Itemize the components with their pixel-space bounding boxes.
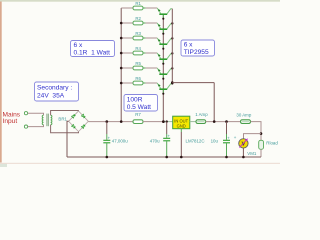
svg-text:470u: 470u (150, 139, 160, 144)
wire: row 4 horizontal from left bus to resistor R4 (121, 52, 133, 54)
annotation box: 6 x TIP2955 (181, 40, 215, 56)
transistor Q3: base stub to bus (162, 45, 164, 49)
transistor Q4: base bar (159, 58, 167, 60)
annotation box: Secondary 24V 35A (35, 82, 79, 101)
bridge BR1 diode D1 (top-left edge) (72, 115, 75, 118)
junction: 470u capacitor tap (166, 120, 168, 122)
junction on left bus, row 5 (120, 67, 123, 70)
transistor Q4: base stub to bus (162, 60, 164, 64)
junction: Q5 base joins base bus (162, 78, 164, 80)
wire: secondary top to bridge AC1 (51, 111, 79, 116)
junction: Q5 collector joins collector bus (171, 67, 173, 69)
wire: regulator OUT to fuse F1 (190, 121, 196, 123)
wire: output line from F1 to F2 (206, 121, 241, 123)
wire: row 2 from resistor R2 to transistor Q2 emitter (143, 22, 146, 24)
junction: 47,000u capacitor tap (106, 120, 109, 123)
transistor Q2: base bar (159, 28, 167, 30)
resistor R6 (0.1R) body (133, 81, 143, 85)
wire: Rload to ground rail (260, 149, 262, 157)
junction on left bus, row 3 (120, 37, 123, 40)
junction: Q6 collector joins collector bus (171, 82, 173, 84)
left border of page frame (0, 2, 2, 163)
transistor Q1 TIP2955 (PNP): emitter lead with arrow (157, 8, 161, 13)
capacitor C3 10u (223, 122, 230, 157)
wire: row 5 from resistor R5 to transistor Q5 emitter (143, 67, 146, 69)
junction: C1 on ground rail (106, 156, 109, 159)
transformer T1 core (46, 114, 48, 127)
wire: row 6 horizontal from left bus to resistor R6 (121, 82, 133, 84)
wire: neutral terminal to transformer primary (28, 125, 44, 127)
svg-text:VM1: VM1 (247, 151, 257, 156)
wire: common base bus vertical down to regulator IN node (162, 15, 164, 122)
resistor R4 (0.1R) body (133, 51, 143, 55)
wire: voltmeter horizontal tap (244, 134, 262, 139)
svg-text:Input: Input (3, 118, 18, 125)
junction: Q4 base joins base bus (162, 63, 164, 65)
svg-text:LM7812C: LM7812C (186, 139, 205, 144)
junction: 10u capacitor tap (225, 120, 228, 123)
annotation box: 100R 0.5 Watt (124, 95, 158, 112)
svg-text:30 Amp: 30 Amp (236, 112, 251, 117)
fuse F2 30 Amp body (241, 120, 251, 124)
transformer T1 secondary winding (51, 115, 52, 125)
junction: Q3 collector joins collector bus (171, 37, 173, 39)
junction: Q2 collector joins collector bus (171, 22, 173, 24)
junction: base bus joins regulator IN node (162, 120, 165, 123)
transformer T1 primary winding (42, 115, 43, 125)
regulator U1 LM7812C body (173, 116, 190, 129)
resistor R3 (0.1R) body (133, 36, 143, 40)
wire: row 1 from resistor R1 to transistor Q1 emitter (143, 7, 146, 9)
wire: bottom ground rail (67, 156, 261, 158)
wire: bridge negative output down to ground rail (67, 121, 69, 157)
wire: row 2 horizontal from left bus to resistor R2 (121, 22, 133, 24)
svg-text:R2: R2 (135, 16, 141, 21)
svg-text:10u: 10u (211, 139, 219, 144)
resistor Rload body (259, 140, 264, 149)
bridge BR1 diode D2 (top-right edge) (82, 114, 85, 117)
resistor R5 (0.1R) body (133, 66, 143, 70)
wire: R7 to regulator IN node (143, 121, 163, 123)
wire: left vertical supply bus from row 1 down to raw DC node (120, 8, 122, 122)
svg-text:47,000u: 47,000u (112, 139, 128, 144)
capacitor C2 470u (163, 122, 170, 157)
junction on left bus, row 6 (120, 82, 123, 85)
svg-text:R4: R4 (135, 46, 141, 51)
transistor Q1: collector lead to collector bus (167, 9, 172, 14)
junction: collector feed joins output line (213, 120, 216, 123)
wire: regulator GND to ground rail (180, 129, 182, 132)
svg-text:R7: R7 (135, 112, 141, 117)
svg-text:0.1R 1 Watt: 0.1R 1 Watt (74, 50, 111, 57)
bridge rectifier BR1 diamond (69, 111, 89, 132)
junction: Q6 base joins base bus (162, 93, 164, 95)
resistor R7 (100R) body (133, 120, 143, 124)
transistor Q1: base stub to bus (162, 15, 164, 19)
junction: C3 on ground rail (225, 156, 228, 159)
junction: collector bus to output feed (171, 81, 174, 84)
bridge BR1 diode D4 (bottom-right edge) (82, 125, 85, 128)
svg-text:BR1: BR1 (58, 117, 67, 122)
wire: row 3 horizontal from left bus to resistor R3 (121, 37, 133, 39)
transistor Q4: collector lead to collector bus (167, 54, 172, 59)
junction: Q4 collector joins collector bus (171, 52, 173, 54)
junction: regulator GND on ground rail (180, 156, 183, 159)
svg-text:0.5 Watt: 0.5 Watt (127, 104, 151, 111)
wire: voltmeter to ground rail (242, 148, 244, 157)
bridge BR1 diode D3 (bottom-left edge) (72, 125, 75, 128)
svg-text:TIP2955: TIP2955 (184, 49, 209, 56)
transistor Q5: base stub to bus (162, 75, 164, 79)
transistor Q2: collector lead to collector bus (167, 24, 172, 29)
transistor Q6: base bar (159, 88, 167, 90)
svg-text:GND: GND (177, 123, 186, 128)
terminal: mains live (24, 112, 27, 115)
transistor Q6 TIP2955 (PNP): emitter lead with arrow (157, 83, 161, 88)
transistor Q5 TIP2955 (PNP): emitter lead with arrow (157, 68, 161, 73)
wire: live terminal to transformer primary (28, 113, 44, 115)
transistor Q2: base stub to bus (162, 30, 164, 34)
junction: voltmeter tap on load branch (260, 132, 263, 135)
capacitor C1 47,000u (103, 122, 110, 157)
svg-text:R1: R1 (135, 1, 141, 6)
transistor Q3: collector lead to collector bus (167, 39, 172, 44)
transistor Q2 TIP2955 (PNP): emitter lead with arrow (157, 23, 161, 28)
terminal: mains neutral (24, 125, 27, 128)
junction: Q2 base joins base bus (162, 33, 164, 35)
junction on left bus, row 4 (120, 52, 123, 55)
junction: Q1 base joins base bus (162, 18, 164, 20)
transistor Q5: collector lead to collector bus (167, 69, 172, 74)
svg-text:6 x: 6 x (74, 42, 83, 49)
transistor Q5: base bar (159, 73, 167, 75)
wire: row 3 from resistor R3 to transistor Q3 emitter (143, 37, 146, 39)
label: Mains Input (red) (3, 112, 21, 126)
transistor Q6: collector lead to collector bus (167, 84, 172, 89)
bottom-left corner patch (0, 164, 7, 168)
svg-text:R5: R5 (135, 61, 141, 66)
wire: row 1 horizontal from left bus to resistor R1 (121, 7, 133, 9)
svg-text:100R: 100R (127, 96, 143, 103)
svg-text:1 Amp: 1 Amp (195, 112, 208, 117)
svg-text:+: + (234, 135, 237, 140)
wire: collector output feed horizontal (172, 82, 214, 84)
junction: Q3 base joins base bus (162, 48, 164, 50)
wire: collector output feed vertical down to output line (213, 83, 215, 122)
wire: raw DC positive line from bridge to R7 (88, 121, 133, 123)
top border of page frame (0, 0, 280, 2)
transistor Q3 TIP2955 (PNP): emitter lead with arrow (157, 38, 161, 43)
fuse F1 1 Amp body (196, 120, 206, 124)
svg-text:Rload: Rload (266, 141, 278, 146)
wire: row 5 horizontal from left bus to resistor R5 (121, 67, 133, 69)
svg-text:R3: R3 (135, 31, 141, 36)
junction: voltmeter on ground rail (242, 156, 245, 159)
svg-text:6 x: 6 x (184, 42, 193, 49)
transistor Q6: base stub to bus (162, 90, 164, 94)
transistor Q4 TIP2955 (PNP): emitter lead with arrow (157, 53, 161, 58)
junction on left bus, row 2 (120, 22, 123, 25)
bottom border of page frame (0, 163, 280, 164)
wire: secondary bottom to bridge AC2 (51, 125, 79, 133)
resistor R1 (0.1R) body (133, 6, 143, 10)
wire: output line from F2 to load branch (251, 122, 262, 141)
transistor Q1: base bar (159, 13, 167, 15)
resistor R2 (0.1R) body (133, 21, 143, 25)
junction: left supply bus joins raw DC line (120, 120, 123, 123)
wire: row 6 from resistor R6 to transistor Q6 emitter (143, 82, 146, 84)
wire: row 4 from resistor R4 to transistor Q4 emitter (143, 52, 146, 54)
wire: common collector bus vertical (171, 9, 173, 83)
junction: C2 on ground rail (165, 156, 168, 159)
svg-text:24V 35A: 24V 35A (37, 93, 65, 100)
svg-text:R6: R6 (135, 76, 141, 81)
svg-text:Secondary :: Secondary : (37, 84, 72, 91)
transistor Q3: base bar (159, 43, 167, 45)
voltmeter VM1 (234, 135, 248, 148)
annotation box: 6 x 0.1R 1 Watt (71, 41, 115, 57)
